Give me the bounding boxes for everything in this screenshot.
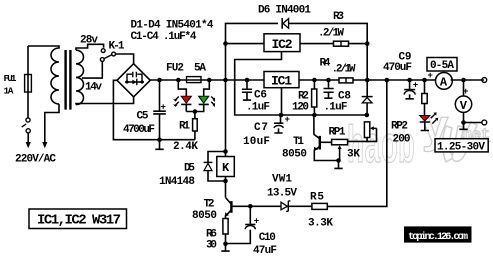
capacitor C10 [226,206,251,243]
junction adj rail right / RP2 top [365,113,370,118]
resistor R2 [313,80,315,115]
wire: down to output bus [366,44,368,80]
wire: left rail up to D6 line [226,23,279,80]
junction LED common [193,109,198,114]
wire: IC2 adj routing [235,52,367,115]
svg-text:R3: R3 [333,11,344,23]
wire: AC live input with FU1 down to switch [27,46,29,118]
svg-text:+: + [463,87,468,97]
fuse FU2 [187,77,202,83]
svg-text:C10: C10 [259,232,276,244]
1.25-30V box [435,139,488,152]
LED red (fuse indicator) [181,96,191,103]
wire: AC neutral from primary bottom [45,104,59,143]
svg-text:0-5A: 0-5A [430,60,454,72]
svg-text:1.25-30V: 1.25-30V [437,141,485,153]
relay contact K-1 circles [101,49,105,53]
junction adj rail R2 [312,113,317,118]
svg-text:+: + [161,103,166,113]
junction D5 bottom [223,179,228,184]
svg-text:.2/1W: .2/1W [318,28,344,40]
svg-text:C8: C8 [338,90,351,102]
svg-text:200: 200 [393,134,411,146]
svg-text:C6: C6 [254,90,267,102]
svg-text:.1uF: .1uF [324,102,348,114]
svg-text:D6 IN4001: D6 IN4001 [258,5,311,17]
svg-text:8050: 8050 [192,210,217,222]
0-5A box [427,58,457,72]
svg-text:30: 30 [206,240,217,252]
svg-text:14v: 14v [85,82,102,94]
transistor T2 [230,201,232,213]
svg-text:D5: D5 [184,162,195,174]
resistor (LED dropper) [424,80,426,116]
fuse FU1 [25,75,32,93]
svg-text:R2: R2 [298,90,309,102]
LED green (fuse indicator) [199,96,209,103]
resistor R5 [312,203,327,209]
wire: 14V tap [82,62,102,79]
junction main rail top [223,78,228,83]
junction C5 bottom [157,137,162,142]
junction C8 top [326,78,331,83]
svg-text:C1-C4 .1uF*4: C1-C4 .1uF*4 [131,31,197,43]
wire: T2 emitter to R6 [225,216,227,244]
wire: green LED branch [204,80,210,96]
terminal + [482,78,487,83]
ground below C5 [155,140,163,150]
capacitor C5 [159,80,161,140]
resistor R3 [334,41,349,46]
junction IC1 adj / C7 [279,113,284,118]
junction bus/rail right [365,78,370,83]
wire: ammeter to + terminal [451,79,484,81]
junction C6 [245,78,250,83]
junction C9 [407,78,412,83]
junction R2 top [312,78,317,83]
transistor T1 [319,136,321,150]
junction C10 top [248,204,253,209]
svg-text:IC1,IC2 W317: IC1,IC2 W317 [37,213,121,229]
svg-text:1N4148: 1N4148 [159,176,195,188]
potentiometer RP2 (rheostat) [364,122,369,138]
potentiometer RP1 [332,139,348,144]
ground below voltmeter [459,123,467,130]
switch blade [22,124,27,127]
junction LED green tap [207,78,212,83]
junction bus down-wire [385,78,390,83]
wire: 28V tap to K-1 top contact [76,44,104,50]
svg-text:10uF: 10uF [243,136,270,148]
capacitor C9 [405,80,413,99]
transformer core [66,50,71,110]
svg-text:VW1: VW1 [272,174,292,186]
wire: bus down to R5 line [327,80,387,206]
wire: red LED branch [178,80,186,96]
svg-text:D1-D4 IN5401*4: D1-D4 IN5401*4 [131,20,214,32]
wire: IC1 adj pin [281,88,283,115]
capacitor C6 [243,80,251,100]
svg-text:R1: R1 [179,120,190,132]
svg-text:470uF: 470uF [383,62,412,74]
resistor R1 [194,112,196,140]
svg-text:8050: 8050 [282,149,307,161]
LED red emission arrows [175,97,178,106]
svg-text:2.4K: 2.4K [173,141,198,153]
capacitor C8 [324,80,332,98]
junction LED indicator branch [422,78,427,83]
svg-text:IC2: IC2 [272,37,293,52]
wire: secondary bottom to bridge [76,97,134,105]
LED green emission arrows [211,97,214,106]
IC1 box [264,72,299,88]
LED emission arrows [431,114,437,123]
svg-text:R4: R4 [320,57,331,69]
svg-text:RP1: RP1 [329,127,346,139]
svg-text:47uF: 47uF [253,245,277,257]
IC2 box [264,34,300,52]
junction T1 emitter / wiper [336,158,341,163]
ground below R6 [221,244,229,251]
svg-text:A: A [440,76,448,90]
svg-text:V: V [460,99,468,113]
svg-text:T2: T2 [204,199,215,211]
svg-text:+: + [254,216,259,226]
watermark haobY.net [347,104,491,178]
resistor R4 [339,78,353,83]
svg-text:28v: 28v [80,35,98,47]
IC1,IC2 W317 box [29,209,127,229]
K-1 moving arm [105,55,112,59]
wire: K-1 to bridge top corner [116,54,134,64]
svg-text:K-1: K-1 [109,40,125,52]
svg-text:13.5V: 13.5V [267,188,297,200]
RP1 wiper [339,148,341,161]
svg-text:RP2: RP2 [391,121,408,133]
junction R3/D6 [365,41,370,46]
wire: IC2 input [226,43,265,45]
svg-text:C7: C7 [254,122,268,134]
LED power indicator [420,116,430,122]
wire: RP1 right to RP2 bottom [348,128,377,141]
ground below RP1 wiper [334,161,342,169]
svg-text:R5: R5 [310,192,324,204]
transformer T primary winding [28,46,59,104]
diode D6 [282,18,367,43]
junction R6 bottom [223,241,228,246]
svg-text:220V/AC: 220V/AC [15,154,56,166]
voltmeter V [455,96,471,112]
svg-text:IC1: IC1 [271,74,292,89]
svg-text:T1: T1 [293,136,304,148]
wire: negative rail from bridge left corner [113,80,194,139]
svg-text:4700uF: 4700uF [123,124,155,136]
terminal - [482,120,487,125]
bridge inner diode glyph [125,72,144,82]
svg-text:5A: 5A [194,62,206,74]
svg-text:1A: 1A [4,86,14,97]
svg-text:topinc.126.com: topinc.126.com [408,231,468,243]
ammeter A [436,73,453,90]
wire: output bus right section [367,79,435,81]
junction LED red tap [176,78,181,83]
resistor R6 [223,219,228,235]
switch contact circles [26,118,30,122]
junction voltmeter bottom [461,120,466,125]
wire: T1 base to RP1 [321,141,332,143]
wire: voltmeter branch [464,80,483,123]
junction voltmeter top [461,78,466,83]
wire: IC1 out line [299,79,367,81]
svg-text:120: 120 [292,102,309,114]
svg-text:C5: C5 [137,111,149,123]
svg-text:.1uF: .1uF [246,102,270,114]
relay coil K [217,157,235,177]
svg-text:3K: 3K [347,149,360,161]
junction D5 top [223,149,228,154]
diode D5 (flyback) [208,152,226,182]
arrowhead AC live [26,142,31,148]
capacitor C7 [274,115,282,133]
wire: positive bus from bridge to IC1 [150,79,264,81]
bridge rectifier D1-D4 [117,64,150,97]
wire: IC2 out to R3 [300,43,367,45]
wire: below switch to arrow [27,133,29,143]
junction C5 top [157,78,162,83]
wire: rail down to relay [225,80,227,198]
svg-text:FU2: FU2 [166,62,184,74]
topinc.126.com badge [404,226,472,242]
protection diode (OUT-ADJ) [366,80,368,115]
svg-text:FU1: FU1 [4,73,17,84]
transformer T secondary winding [76,50,84,104]
svg-text:K: K [222,161,230,175]
svg-text:3.3K: 3.3K [308,218,333,230]
svg-text:.2/1W: .2/1W [332,64,356,76]
zener VW1 [281,202,287,210]
svg-text:+: + [285,115,290,125]
svg-text:+: + [428,71,433,81]
junction IC2 input tap [223,41,228,46]
svg-text:+: + [413,81,418,91]
arrowhead AC neutral [42,142,47,148]
